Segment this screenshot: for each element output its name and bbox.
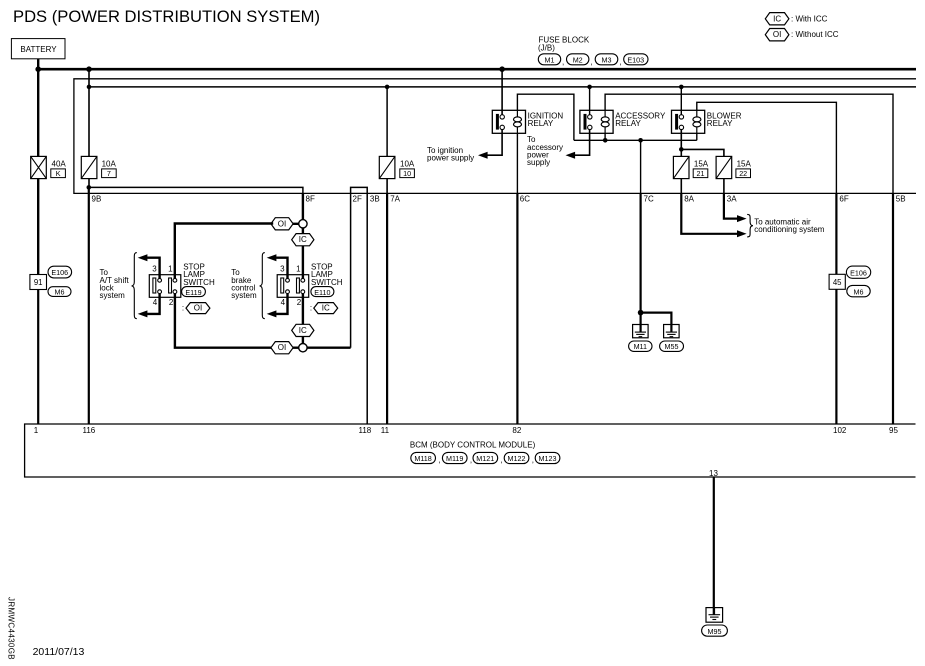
node inner bus at accessory relay bbox=[587, 85, 592, 90]
svg-text:3B: 3B bbox=[370, 194, 380, 203]
svg-text:6F: 6F bbox=[839, 194, 848, 203]
hexagon OI on return line bbox=[271, 342, 293, 354]
svg-text:1: 1 bbox=[168, 265, 173, 274]
node ground bus 7C bbox=[638, 138, 643, 143]
svg-text:M6: M6 bbox=[55, 288, 65, 297]
brace to automatic air conditioning system bbox=[747, 214, 753, 237]
wire left switch pin 2 down to OI return line bbox=[175, 294, 273, 348]
svg-text:2: 2 bbox=[169, 298, 174, 307]
svg-text:BCM (BODY CONTROL MODULE): BCM (BODY CONTROL MODULE) bbox=[410, 440, 536, 449]
svg-text:supply: supply bbox=[527, 158, 550, 167]
svg-text:M6: M6 bbox=[854, 287, 864, 296]
node circle top stop lamp bbox=[299, 220, 307, 228]
svg-text:IC: IC bbox=[299, 326, 307, 335]
svg-text:95: 95 bbox=[889, 426, 898, 435]
wire ground junction to M11 bbox=[639, 313, 641, 332]
wire 8A fuse 21 to air conditioning arrow bbox=[680, 179, 682, 194]
svg-text:M123: M123 bbox=[539, 454, 557, 463]
svg-text:IC: IC bbox=[299, 235, 307, 244]
svg-text:7A: 7A bbox=[390, 194, 400, 203]
svg-text:,: , bbox=[562, 58, 564, 67]
svg-text:82: 82 bbox=[512, 426, 521, 435]
wire right switch pin 4 to arrow bbox=[276, 294, 287, 314]
svg-text:SWITCH: SWITCH bbox=[311, 278, 343, 287]
svg-text:9B: 9B bbox=[92, 194, 102, 203]
svg-text:M122: M122 bbox=[508, 454, 526, 463]
svg-text:M95: M95 bbox=[708, 627, 722, 636]
wire 6F blower coil to connector 45 and BCM pin 102 bbox=[697, 102, 837, 193]
wire 7A from fuse 10 to BCM pin 11 bbox=[386, 179, 388, 194]
svg-text:7: 7 bbox=[107, 169, 111, 178]
hexagon OI variant tag left switch bbox=[182, 303, 210, 314]
relay U2 accessory relay bbox=[580, 110, 666, 133]
svg-text:10A: 10A bbox=[102, 159, 117, 168]
svg-text:OI: OI bbox=[194, 304, 202, 313]
arrow pin 3 to A/T shift lock system bbox=[138, 254, 148, 261]
svg-text:3A: 3A bbox=[727, 194, 737, 203]
svg-text:45: 45 bbox=[833, 278, 842, 287]
text to automatic air conditioning system bbox=[754, 217, 825, 234]
svg-text:RELAY: RELAY bbox=[528, 119, 554, 128]
connector M6 left bbox=[48, 287, 71, 297]
wire blower relay contact to 15A fuses bbox=[680, 130, 682, 157]
svg-text:22: 22 bbox=[739, 169, 747, 178]
hexagon IC variant tag right switch bbox=[310, 303, 338, 314]
node junction above fuse 21 bbox=[679, 147, 684, 152]
connector box 45 bbox=[829, 274, 845, 289]
svg-text:5B: 5B bbox=[896, 194, 906, 203]
wire relay coil ground bus bbox=[574, 139, 697, 141]
wire left switch pin 4 to arrow bbox=[147, 294, 160, 314]
ground M95 bbox=[702, 608, 728, 637]
hexagon OI on stop lamp feed top bbox=[271, 218, 293, 230]
svg-text:4: 4 bbox=[281, 298, 286, 307]
svg-text:21: 21 bbox=[697, 169, 705, 178]
arrow to accessory power supply bbox=[566, 152, 576, 159]
svg-text:,: , bbox=[620, 58, 622, 67]
wire inner bus bbox=[89, 86, 916, 88]
ground M55 bbox=[660, 325, 684, 352]
svg-text:,: , bbox=[591, 58, 593, 67]
svg-text:RELAY: RELAY bbox=[707, 119, 733, 128]
svg-text:15A: 15A bbox=[694, 159, 709, 168]
svg-text:8F: 8F bbox=[306, 194, 315, 203]
text to accessory power supply bbox=[527, 135, 563, 167]
svg-text:40A: 40A bbox=[52, 159, 67, 168]
svg-text:,: , bbox=[532, 456, 534, 465]
svg-text::: : bbox=[182, 304, 184, 313]
wire ground junction to M55 bbox=[641, 313, 672, 332]
svg-text:E119: E119 bbox=[185, 288, 201, 297]
node ground junction 7C bbox=[638, 310, 644, 316]
svg-text:M11: M11 bbox=[634, 342, 647, 351]
connector M121 bbox=[473, 452, 503, 464]
wire ignition relay contact to ignition power supply arrow bbox=[487, 130, 502, 156]
svg-text:1: 1 bbox=[296, 265, 301, 274]
svg-text:E106: E106 bbox=[51, 268, 68, 277]
svg-text:(J/B): (J/B) bbox=[538, 43, 555, 52]
svg-text:conditioning system: conditioning system bbox=[754, 225, 825, 234]
svg-text:,: , bbox=[438, 456, 440, 465]
connector E106 left bbox=[48, 266, 72, 278]
arrow 3A to automatic air conditioning system bbox=[737, 215, 747, 222]
svg-text:M1: M1 bbox=[545, 55, 555, 64]
relay U1 ignition relay bbox=[492, 110, 563, 133]
svg-text:118: 118 bbox=[359, 426, 372, 435]
connector M118 bbox=[411, 452, 441, 464]
svg-text:2: 2 bbox=[297, 298, 302, 307]
stop lamp switch S1 E119 bbox=[149, 275, 181, 298]
svg-text:,: , bbox=[470, 456, 472, 465]
node inner bus at fuse 10 bbox=[385, 85, 390, 90]
svg-text:4: 4 bbox=[153, 298, 158, 307]
svg-text:3: 3 bbox=[152, 265, 157, 274]
svg-text:,: , bbox=[501, 456, 503, 465]
svg-text:RELAY: RELAY bbox=[615, 119, 641, 128]
text to ignition power supply bbox=[427, 146, 474, 163]
svg-text:3: 3 bbox=[280, 265, 285, 274]
arrow to ignition power supply bbox=[478, 152, 488, 159]
text to A/T shift lock system bbox=[100, 268, 130, 300]
svg-text:8A: 8A bbox=[684, 194, 694, 203]
svg-text:10A: 10A bbox=[400, 159, 415, 168]
svg-text:2F: 2F bbox=[353, 194, 362, 203]
hexagon IC below top circle bbox=[292, 234, 314, 246]
svg-text:M2: M2 bbox=[573, 55, 583, 64]
wire accessory coil bottom to ground bus bbox=[604, 133, 606, 140]
node inner bus at fuse 7 bbox=[87, 85, 92, 90]
svg-text:: With ICC: : With ICC bbox=[791, 14, 828, 23]
wire 5B accessory coil to BCM pin 95 bbox=[605, 94, 893, 193]
svg-text:K: K bbox=[56, 169, 61, 178]
wire 8F drop to node circle bbox=[302, 193, 304, 219]
fuse 15A 21 bbox=[673, 156, 708, 178]
wire fuse 7 to node 9B bbox=[88, 179, 90, 188]
wire OI hexagon to bottom node circle bbox=[293, 347, 299, 349]
svg-text::: : bbox=[310, 304, 312, 313]
text to brake control system bbox=[231, 268, 257, 300]
svg-text:: Without ICC: : Without ICC bbox=[791, 30, 839, 39]
arrow right pin 4 to brake control system bbox=[267, 310, 277, 317]
fuse 10A 10 bbox=[379, 156, 415, 178]
legend hexagon OI : Without ICC bbox=[765, 29, 838, 41]
legend hexagon IC : With ICC bbox=[765, 13, 827, 25]
node inner bus at blower relay bbox=[679, 85, 684, 90]
wire right switch pin 3 to arrow bbox=[276, 258, 287, 279]
wire ignition relay coil top loop to ground bus bbox=[517, 94, 574, 140]
svg-text:M121: M121 bbox=[476, 454, 494, 463]
svg-text:15A: 15A bbox=[737, 159, 752, 168]
label stop lamp switch right bbox=[311, 262, 343, 286]
svg-text:M119: M119 bbox=[446, 454, 463, 463]
svg-text:116: 116 bbox=[83, 426, 96, 435]
wire OI hexagon to node circle bbox=[293, 223, 299, 225]
wire right switch pin 2 through IC hexagon to bottom circle bbox=[302, 294, 304, 344]
wire battery bus bbox=[38, 68, 916, 71]
wire 6C ignition coil to BCM pin 82 bbox=[516, 133, 518, 193]
arrow pin 4 to A/T shift lock system bbox=[138, 310, 148, 317]
svg-text:E110: E110 bbox=[314, 288, 330, 297]
connector M123 bbox=[535, 452, 560, 463]
node bus junction at 9B drop bbox=[86, 66, 92, 72]
wire junction to fuse 22 bbox=[681, 149, 724, 156]
wire inner bus to accessory relay contact bbox=[589, 87, 591, 115]
fusible link 40A K bbox=[31, 156, 67, 178]
wire inner bus to fuse 10 bbox=[386, 87, 388, 156]
svg-text:7C: 7C bbox=[644, 194, 654, 203]
svg-text:10: 10 bbox=[403, 169, 411, 178]
svg-text:PDS (POWER DISTRIBUTION SYSTEM: PDS (POWER DISTRIBUTION SYSTEM) bbox=[13, 7, 320, 26]
wire fusible link to connector 91 bbox=[37, 179, 39, 275]
fuse 15A 22 bbox=[716, 156, 751, 178]
wire battery to fusible link bbox=[37, 69, 39, 156]
wire 7C ground bus to ground junction bbox=[640, 140, 642, 193]
battery B1 bbox=[11, 39, 65, 59]
svg-text:SWITCH: SWITCH bbox=[183, 278, 215, 287]
svg-text:13: 13 bbox=[709, 469, 718, 478]
svg-text:BATTERY: BATTERY bbox=[20, 45, 57, 54]
wire OI branch to left switch pin 1 bbox=[175, 224, 273, 279]
node junction 9B bbox=[87, 185, 92, 190]
wire blower coil bottom to ground bus bbox=[696, 133, 698, 140]
fuse block label FUSE BLOCK (J/B) bbox=[538, 35, 590, 52]
svg-text:JRMWC4430GB: JRMWC4430GB bbox=[6, 597, 15, 660]
svg-text:system: system bbox=[231, 291, 257, 300]
wire drop from bus to inner bus and fuse 7 bbox=[88, 69, 90, 156]
svg-text:M3: M3 bbox=[602, 55, 612, 64]
wire inner bus to blower relay contact bbox=[680, 87, 682, 115]
svg-text:OI: OI bbox=[773, 30, 781, 39]
wire left switch pin 3 to arrow bbox=[147, 258, 160, 279]
wire bottom circle to 2F riser bbox=[307, 347, 351, 349]
wire BCM pin 13 to ground M95 bbox=[713, 477, 715, 615]
wire bus to ignition relay contact bbox=[501, 69, 503, 115]
svg-text:E103: E103 bbox=[627, 55, 644, 64]
svg-text:102: 102 bbox=[833, 426, 847, 435]
fuse block J/B box outline (open right) bbox=[74, 79, 916, 194]
svg-text:OI: OI bbox=[278, 343, 286, 352]
hexagon IC above bottom circle bbox=[292, 324, 314, 336]
arrow 8A to automatic air conditioning system bbox=[737, 230, 747, 237]
connector M2 bbox=[567, 54, 593, 67]
relay U3 blower relay bbox=[672, 110, 742, 133]
wire inner link to 8F drop bbox=[89, 187, 303, 193]
svg-text:M55: M55 bbox=[665, 342, 679, 351]
svg-text:1: 1 bbox=[34, 426, 39, 435]
svg-text:M118: M118 bbox=[414, 454, 431, 463]
svg-text:6C: 6C bbox=[520, 194, 530, 203]
svg-text:power supply: power supply bbox=[427, 154, 474, 163]
connector M3 bbox=[595, 54, 622, 67]
brace to brake control system bbox=[260, 253, 265, 319]
connector E106 right bbox=[846, 266, 870, 278]
connector E103 bbox=[624, 54, 648, 65]
svg-text:E106: E106 bbox=[850, 268, 867, 277]
svg-text:system: system bbox=[100, 291, 126, 300]
wire accessory relay contact to accessory power supply arrow bbox=[575, 130, 590, 156]
connector M119 bbox=[442, 452, 472, 464]
node circle bottom stop lamp bbox=[299, 344, 307, 352]
wire connector 91 to BCM pin 1 bbox=[37, 290, 39, 425]
wire battery to bus bbox=[37, 59, 39, 69]
wire 2F to 3B jog inside J/B bbox=[351, 187, 368, 424]
stop lamp switch S2 E110 bbox=[277, 275, 309, 298]
fuse 10A 7 bbox=[81, 156, 116, 178]
ground M11 bbox=[629, 325, 652, 352]
svg-text:2011/07/13: 2011/07/13 bbox=[33, 646, 85, 658]
brace to A/T shift lock system bbox=[132, 253, 137, 319]
node bus junction at ignition relay feed bbox=[499, 66, 505, 72]
svg-text:11: 11 bbox=[381, 426, 390, 435]
connector E119 bbox=[182, 287, 206, 297]
arrow right pin 3 to brake control system bbox=[267, 254, 277, 261]
connector M1 bbox=[538, 54, 564, 67]
wire node circle to IC hexagon to right switch pin 1 bbox=[302, 228, 304, 278]
node battery junction bbox=[35, 66, 41, 72]
connector M122 bbox=[504, 452, 534, 464]
svg-text:IC: IC bbox=[322, 304, 330, 313]
connector M6 right bbox=[847, 285, 870, 296]
connector box 91 bbox=[30, 275, 47, 290]
node ground bus accessory coil bbox=[603, 138, 608, 143]
label stop lamp switch left bbox=[183, 262, 215, 286]
BCM box bbox=[25, 424, 916, 477]
svg-text:91: 91 bbox=[34, 278, 43, 287]
connector E110 bbox=[311, 287, 334, 297]
wire 9B to BCM pin 116 bbox=[88, 187, 90, 424]
wire 3A fuse 22 to air conditioning arrow bbox=[723, 179, 725, 194]
svg-text:IC: IC bbox=[773, 14, 781, 23]
svg-text:OI: OI bbox=[278, 219, 286, 228]
